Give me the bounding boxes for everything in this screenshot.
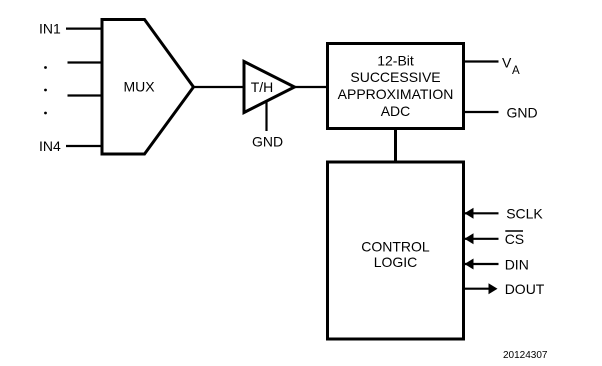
svg-text:IN4: IN4 (39, 138, 61, 154)
svg-text:SUCCESSIVE: SUCCESSIVE (350, 69, 440, 85)
svg-text:ADC: ADC (381, 103, 411, 119)
svg-text:CS: CS (505, 231, 524, 247)
svg-text:12-Bit: 12-Bit (377, 53, 414, 69)
svg-text:DOUT: DOUT (505, 281, 545, 297)
svg-text:T/H: T/H (251, 79, 274, 95)
svg-text:DIN: DIN (505, 257, 529, 273)
svg-text:APPROXIMATION: APPROXIMATION (338, 86, 454, 102)
svg-text:MUX: MUX (123, 79, 155, 95)
svg-text:IN1: IN1 (39, 21, 61, 37)
svg-text:CONTROL: CONTROL (361, 239, 430, 255)
svg-text:A: A (512, 65, 520, 77)
svg-text:GND: GND (252, 134, 283, 150)
svg-text:SCLK: SCLK (506, 205, 543, 221)
svg-text:LOGIC: LOGIC (374, 254, 418, 270)
svg-text:V: V (502, 55, 512, 71)
svg-text:GND: GND (507, 104, 538, 120)
svg-text:20124307: 20124307 (503, 350, 548, 361)
